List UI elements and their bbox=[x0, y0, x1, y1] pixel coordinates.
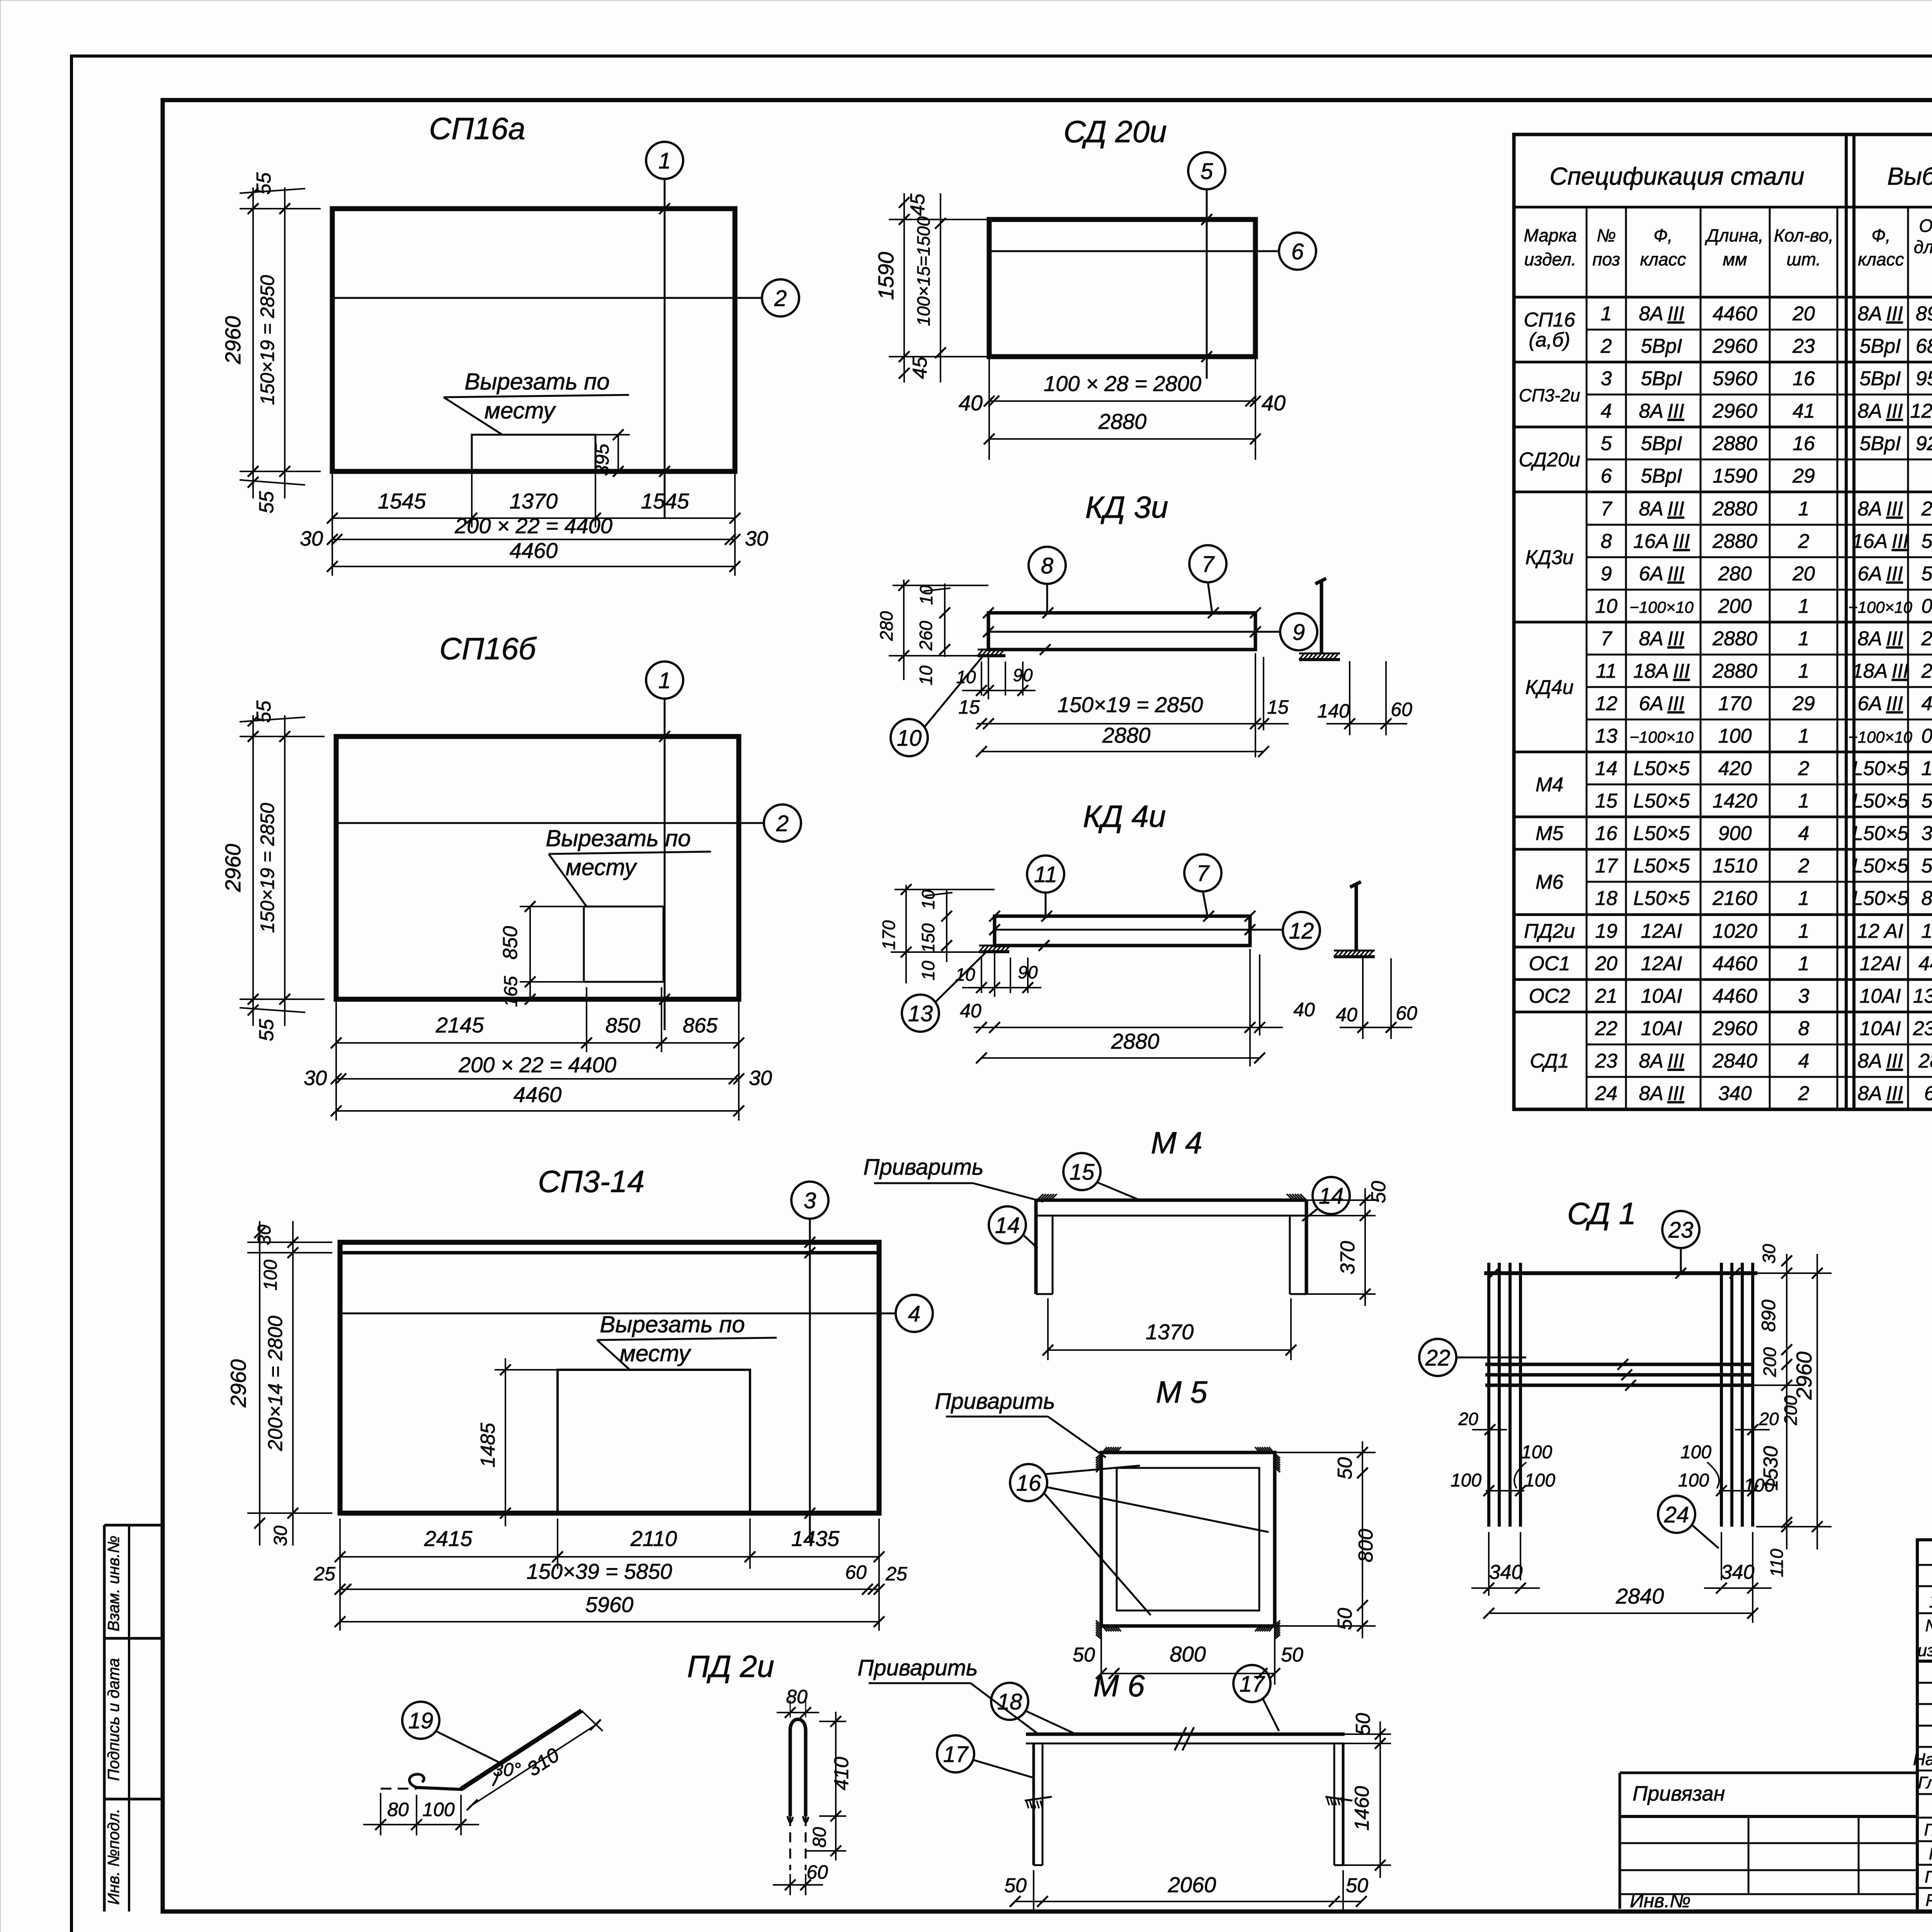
svg-text:7: 7 bbox=[1601, 498, 1613, 520]
svg-text:12AI: 12AI bbox=[1641, 920, 1682, 942]
svg-text:1: 1 bbox=[1798, 887, 1810, 910]
svg-text:ОС2: ОС2 bbox=[1529, 985, 1570, 1007]
svg-text:0.10: 0.10 bbox=[1921, 725, 1932, 747]
svg-text:24: 24 bbox=[1664, 1502, 1689, 1527]
svg-text:(а,б): (а,б) bbox=[1529, 329, 1570, 351]
svg-text:2840: 2840 bbox=[1616, 1584, 1664, 1608]
svg-text:месту: месту bbox=[620, 1340, 692, 1366]
svg-text:СП16б: СП16б bbox=[439, 631, 537, 666]
svg-text:30: 30 bbox=[270, 1526, 291, 1546]
svg-text:СП3-2и: СП3-2и bbox=[1519, 385, 1580, 405]
svg-text:Вырезать по: Вырезать по bbox=[546, 825, 690, 851]
svg-text:140: 140 bbox=[1317, 700, 1350, 722]
svg-text:150×19 = 2850: 150×19 = 2850 bbox=[257, 803, 278, 933]
svg-text:Выборка стали: Выборка стали bbox=[1887, 162, 1932, 190]
svg-text:1485: 1485 bbox=[477, 1422, 499, 1468]
svg-text:10: 10 bbox=[916, 665, 936, 685]
svg-text:17: 17 bbox=[943, 1742, 969, 1767]
svg-text:1545: 1545 bbox=[641, 489, 689, 513]
svg-text:1420: 1420 bbox=[1713, 790, 1757, 812]
svg-text:издел.: издел. bbox=[1524, 249, 1577, 269]
svg-text:50: 50 bbox=[1334, 1608, 1356, 1630]
svg-text:16: 16 bbox=[1016, 1471, 1041, 1496]
svg-text:200: 200 bbox=[1718, 595, 1752, 617]
svg-text:20: 20 bbox=[1595, 952, 1617, 975]
svg-text:10: 10 bbox=[918, 889, 938, 910]
svg-text:4: 4 bbox=[1601, 400, 1612, 422]
svg-text:13: 13 bbox=[1595, 725, 1617, 747]
svg-text:50: 50 bbox=[1352, 1713, 1374, 1735]
svg-text:2880: 2880 bbox=[1712, 432, 1757, 455]
svg-text:340: 340 bbox=[1718, 1082, 1752, 1105]
svg-text:2060: 2060 bbox=[1168, 1872, 1216, 1897]
svg-text:16: 16 bbox=[1793, 432, 1815, 455]
svg-text:М6: М6 bbox=[1536, 871, 1563, 893]
svg-text:25: 25 bbox=[313, 1563, 335, 1585]
svg-text:5ВрI: 5ВрI bbox=[1860, 432, 1901, 455]
svg-text:1: 1 bbox=[1798, 920, 1810, 942]
svg-text:3: 3 bbox=[804, 1188, 816, 1213]
svg-text:20: 20 bbox=[1792, 303, 1815, 325]
svg-text:15: 15 bbox=[1595, 790, 1618, 812]
svg-text:15: 15 bbox=[1267, 696, 1289, 718]
svg-text:Гл.спец.: Гл.спец. bbox=[1924, 1820, 1932, 1839]
svg-text:8А III: 8А III bbox=[1639, 498, 1684, 520]
svg-text:260: 260 bbox=[916, 621, 936, 651]
svg-text:2880: 2880 bbox=[1712, 530, 1757, 553]
svg-text:8А III: 8А III bbox=[1857, 1050, 1903, 1072]
svg-text:89.20: 89.20 bbox=[1916, 303, 1932, 325]
svg-text:мм: мм bbox=[1723, 249, 1747, 269]
svg-text:1: 1 bbox=[1798, 790, 1810, 812]
svg-text:ОС1: ОС1 bbox=[1529, 952, 1570, 975]
svg-text:100: 100 bbox=[1744, 1475, 1775, 1496]
svg-text:23: 23 bbox=[1668, 1218, 1694, 1243]
svg-text:90: 90 bbox=[1013, 665, 1033, 685]
svg-text:L50×5: L50×5 bbox=[1852, 757, 1909, 780]
svg-text:30: 30 bbox=[1759, 1244, 1779, 1264]
svg-text:3: 3 bbox=[1601, 367, 1612, 390]
svg-text:ПД2и: ПД2и bbox=[1524, 920, 1575, 942]
svg-text:№: № bbox=[1925, 1616, 1932, 1635]
svg-text:Ф,: Ф, bbox=[1871, 225, 1890, 245]
svg-text:4460: 4460 bbox=[514, 1082, 562, 1107]
svg-text:6: 6 bbox=[1601, 465, 1612, 487]
svg-text:41: 41 bbox=[1793, 400, 1815, 422]
svg-text:1545: 1545 bbox=[378, 489, 426, 513]
svg-text:1: 1 bbox=[658, 148, 671, 173]
svg-text:170: 170 bbox=[1718, 692, 1752, 715]
svg-text:Приварить: Приварить bbox=[935, 1389, 1055, 1414]
svg-text:10: 10 bbox=[918, 961, 938, 981]
svg-text:6А III: 6А III bbox=[1639, 563, 1684, 585]
svg-text:Гл.конст.: Гл.конст. bbox=[1918, 1773, 1932, 1792]
svg-text:1: 1 bbox=[1929, 1590, 1932, 1612]
svg-text:Общ.: Общ. bbox=[1919, 216, 1932, 236]
svg-text:1370: 1370 bbox=[1146, 1320, 1194, 1344]
svg-text:ПД 2и: ПД 2и bbox=[687, 1649, 774, 1684]
svg-text:16А III: 16А III bbox=[1633, 530, 1690, 553]
svg-text:4: 4 bbox=[908, 1301, 920, 1327]
svg-text:150×19 = 2850: 150×19 = 2850 bbox=[1058, 692, 1203, 717]
svg-text:30: 30 bbox=[300, 527, 323, 550]
svg-text:8А III: 8А III bbox=[1639, 628, 1684, 650]
svg-text:СП16: СП16 bbox=[1524, 309, 1575, 331]
svg-text:2: 2 bbox=[1798, 855, 1810, 877]
svg-text:5: 5 bbox=[1201, 159, 1213, 184]
svg-text:4460: 4460 bbox=[1713, 952, 1757, 975]
svg-text:8А III: 8А III bbox=[1857, 1082, 1903, 1105]
svg-text:11: 11 bbox=[1596, 660, 1617, 682]
svg-text:16: 16 bbox=[1595, 822, 1617, 845]
svg-text:1510: 1510 bbox=[1713, 855, 1757, 877]
svg-text:2: 2 bbox=[1798, 757, 1810, 780]
svg-text:Вырезать по: Вырезать по bbox=[464, 369, 609, 395]
svg-text:месту: месту bbox=[485, 398, 556, 423]
svg-text:14: 14 bbox=[1319, 1184, 1344, 1209]
svg-text:2: 2 bbox=[1600, 335, 1612, 357]
svg-text:2: 2 bbox=[774, 286, 787, 311]
svg-text:5ВрI: 5ВрI bbox=[1641, 367, 1682, 390]
svg-text:4460: 4460 bbox=[1918, 952, 1932, 975]
svg-text:М 4: М 4 bbox=[1151, 1126, 1202, 1160]
svg-text:1: 1 bbox=[658, 668, 671, 693]
svg-text:13: 13 bbox=[908, 1001, 933, 1026]
svg-text:СП16а: СП16а bbox=[429, 111, 525, 146]
svg-text:2415: 2415 bbox=[424, 1526, 473, 1551]
svg-text:8: 8 bbox=[1798, 1017, 1810, 1040]
svg-text:1590: 1590 bbox=[874, 252, 898, 300]
svg-text:20: 20 bbox=[1759, 1409, 1779, 1429]
svg-text:2.88: 2.88 bbox=[1921, 628, 1932, 650]
svg-text:17: 17 bbox=[1595, 855, 1618, 877]
svg-text:8А III: 8А III bbox=[1639, 400, 1684, 422]
svg-text:2: 2 bbox=[776, 811, 789, 836]
svg-text:8.14: 8.14 bbox=[1921, 887, 1932, 910]
svg-text:20: 20 bbox=[1792, 563, 1815, 585]
svg-text:5960: 5960 bbox=[585, 1592, 634, 1617]
svg-text:340: 340 bbox=[1721, 1561, 1755, 1583]
svg-text:L50×5: L50×5 bbox=[1633, 855, 1690, 877]
svg-text:2840: 2840 bbox=[1712, 1050, 1757, 1072]
svg-text:Инв.№: Инв.№ bbox=[1630, 1890, 1690, 1912]
svg-text:4: 4 bbox=[1798, 822, 1810, 845]
svg-text:2110: 2110 bbox=[630, 1526, 677, 1551]
svg-text:2880: 2880 bbox=[1111, 1029, 1160, 1053]
svg-text:4460: 4460 bbox=[1713, 985, 1757, 1007]
svg-text:5.69: 5.69 bbox=[1921, 855, 1932, 877]
svg-text:19: 19 bbox=[1595, 920, 1617, 942]
svg-text:1: 1 bbox=[1798, 660, 1810, 682]
svg-text:420: 420 bbox=[1718, 757, 1752, 780]
svg-text:5960: 5960 bbox=[1713, 367, 1757, 390]
svg-text:150×19 = 2850: 150×19 = 2850 bbox=[257, 275, 278, 405]
svg-text:92.19: 92.19 bbox=[1916, 432, 1932, 455]
svg-text:8А III: 8А III bbox=[1857, 628, 1903, 650]
svg-text:100: 100 bbox=[1524, 1470, 1555, 1491]
svg-text:1: 1 bbox=[1798, 628, 1810, 650]
svg-text:18А III: 18А III bbox=[1633, 660, 1690, 682]
svg-text:13380: 13380 bbox=[1913, 985, 1932, 1007]
svg-text:Приварить: Приварить bbox=[863, 1155, 983, 1180]
svg-text:395: 395 bbox=[591, 444, 613, 476]
svg-text:10AI: 10AI bbox=[1641, 985, 1682, 1007]
svg-text:100: 100 bbox=[422, 1799, 455, 1820]
svg-text:5.60: 5.60 bbox=[1921, 563, 1932, 585]
svg-text:40: 40 bbox=[959, 391, 983, 415]
svg-text:L50×5: L50×5 bbox=[1633, 757, 1690, 780]
svg-text:16: 16 bbox=[1793, 367, 1815, 390]
svg-text:30: 30 bbox=[254, 1225, 275, 1245]
svg-text:22: 22 bbox=[1595, 1017, 1617, 1040]
svg-text:2960: 2960 bbox=[221, 844, 245, 893]
svg-text:1: 1 bbox=[1798, 725, 1810, 747]
svg-text:121.36: 121.36 bbox=[1910, 400, 1932, 422]
svg-text:165: 165 bbox=[501, 976, 521, 1007]
svg-text:класс: класс bbox=[1640, 249, 1686, 269]
svg-text:5ВрI: 5ВрI bbox=[1641, 335, 1682, 357]
svg-text:−100×10: −100×10 bbox=[1848, 598, 1912, 616]
svg-text:СП3-14: СП3-14 bbox=[538, 1164, 645, 1199]
svg-text:6: 6 bbox=[1291, 239, 1304, 264]
svg-text:2960: 2960 bbox=[1712, 1017, 1757, 1040]
svg-text:2880: 2880 bbox=[1712, 660, 1757, 682]
svg-text:8А III: 8А III bbox=[1639, 1050, 1684, 1072]
svg-text:16А III: 16А III bbox=[1852, 530, 1908, 553]
svg-text:14: 14 bbox=[1595, 757, 1617, 780]
svg-text:2.88: 2.88 bbox=[1921, 660, 1932, 682]
svg-text:М5: М5 bbox=[1536, 822, 1564, 845]
svg-text:23680: 23680 bbox=[1913, 1017, 1932, 1040]
svg-text:30: 30 bbox=[749, 1066, 772, 1090]
svg-text:2840: 2840 bbox=[1918, 1050, 1932, 1072]
svg-text:12: 12 bbox=[1289, 918, 1314, 944]
svg-text:СД 20и: СД 20и bbox=[1063, 114, 1167, 149]
svg-text:800: 800 bbox=[1170, 1642, 1206, 1666]
svg-text:8А III: 8А III bbox=[1639, 1082, 1684, 1105]
svg-text:24: 24 bbox=[1595, 1082, 1617, 1105]
svg-text:60: 60 bbox=[845, 1561, 867, 1583]
svg-text:55: 55 bbox=[253, 700, 275, 723]
svg-text:23: 23 bbox=[1792, 335, 1815, 357]
svg-text:2880: 2880 bbox=[1102, 723, 1151, 747]
svg-text:12 AI: 12 AI bbox=[1857, 920, 1903, 942]
svg-text:−100×10: −100×10 bbox=[1629, 728, 1694, 746]
svg-text:−100×10: −100×10 bbox=[1629, 598, 1694, 616]
svg-text:5ВрI: 5ВрI bbox=[1860, 335, 1901, 357]
svg-text:изм.: изм. bbox=[1918, 1641, 1932, 1660]
svg-text:8А III: 8А III bbox=[1857, 303, 1903, 325]
svg-text:15: 15 bbox=[958, 696, 980, 718]
svg-text:L50×5: L50×5 bbox=[1633, 822, 1690, 845]
svg-text:М4: М4 bbox=[1536, 774, 1563, 796]
svg-text:23: 23 bbox=[1595, 1050, 1617, 1072]
svg-text:100: 100 bbox=[260, 1260, 281, 1291]
svg-text:8А III: 8А III bbox=[1857, 400, 1903, 422]
svg-text:55: 55 bbox=[255, 491, 278, 514]
svg-text:5: 5 bbox=[1601, 432, 1612, 455]
svg-text:680: 680 bbox=[1924, 1082, 1932, 1105]
svg-text:1.02: 1.02 bbox=[1921, 920, 1932, 942]
svg-text:СД20и: СД20и bbox=[1519, 449, 1580, 471]
svg-text:2: 2 bbox=[1798, 530, 1810, 553]
svg-text:45: 45 bbox=[906, 193, 929, 216]
svg-text:8: 8 bbox=[1041, 553, 1053, 578]
svg-text:2960: 2960 bbox=[1712, 335, 1757, 357]
svg-text:6А III: 6А III bbox=[1857, 692, 1903, 715]
svg-text:50: 50 bbox=[1367, 1181, 1390, 1203]
svg-text:410: 410 bbox=[830, 1757, 853, 1791]
svg-text:10AI: 10AI bbox=[1641, 1017, 1682, 1040]
svg-text:7: 7 bbox=[1601, 628, 1613, 650]
svg-text:170: 170 bbox=[879, 920, 899, 950]
svg-text:2880: 2880 bbox=[1712, 498, 1757, 520]
svg-text:2960: 2960 bbox=[221, 316, 245, 365]
svg-text:Ф,: Ф, bbox=[1653, 225, 1672, 245]
svg-text:12AI: 12AI bbox=[1860, 952, 1901, 975]
svg-text:11: 11 bbox=[1034, 862, 1057, 887]
svg-text:80: 80 bbox=[786, 1686, 808, 1708]
svg-text:Нач.АПМ-1: Нач.АПМ-1 bbox=[1913, 1750, 1932, 1769]
svg-text:90: 90 bbox=[1018, 962, 1038, 982]
svg-text:1.58: 1.58 bbox=[1921, 757, 1932, 780]
svg-text:25: 25 bbox=[885, 1563, 907, 1585]
svg-text:50: 50 bbox=[1334, 1457, 1356, 1480]
svg-text:10AI: 10AI bbox=[1860, 985, 1901, 1007]
svg-text:4: 4 bbox=[1798, 1050, 1810, 1072]
svg-text:5ВрI: 5ВрI bbox=[1860, 367, 1901, 390]
svg-text:200 × 22 = 4400: 200 × 22 = 4400 bbox=[458, 1053, 616, 1077]
svg-text:7: 7 bbox=[1202, 552, 1215, 577]
svg-text:СД 1: СД 1 bbox=[1567, 1196, 1636, 1231]
svg-text:1: 1 bbox=[1601, 303, 1612, 325]
svg-text:200 × 22 = 4400: 200 × 22 = 4400 bbox=[454, 514, 612, 538]
svg-text:29: 29 bbox=[1792, 465, 1815, 487]
svg-text:200×14 = 2800: 200×14 = 2800 bbox=[264, 1316, 287, 1451]
svg-text:100: 100 bbox=[1451, 1470, 1481, 1491]
svg-text:Кол-во,: Кол-во, bbox=[1774, 225, 1833, 245]
svg-text:1: 1 bbox=[1798, 595, 1810, 617]
svg-text:2880: 2880 bbox=[1712, 628, 1757, 650]
svg-text:Взам. инв.№: Взам. инв.№ bbox=[104, 1536, 122, 1631]
svg-text:1020: 1020 bbox=[1713, 920, 1757, 942]
svg-text:45: 45 bbox=[909, 356, 931, 379]
svg-text:10: 10 bbox=[916, 585, 936, 605]
svg-text:10: 10 bbox=[955, 964, 975, 985]
svg-text:150×39 = 5850: 150×39 = 5850 bbox=[527, 1559, 672, 1583]
svg-text:890: 890 bbox=[1758, 1299, 1779, 1332]
svg-text:40: 40 bbox=[1262, 391, 1286, 415]
svg-text:8: 8 bbox=[1601, 530, 1612, 553]
svg-text:50: 50 bbox=[1346, 1874, 1368, 1897]
svg-text:100×15=1500: 100×15=1500 bbox=[913, 216, 934, 326]
svg-text:10: 10 bbox=[956, 667, 976, 687]
svg-text:Спецификация стали: Спецификация стали bbox=[1549, 162, 1804, 190]
svg-text:Инв. №подл.: Инв. №подл. bbox=[104, 1809, 122, 1905]
svg-text:8А III: 8А III bbox=[1857, 498, 1903, 520]
svg-text:4460: 4460 bbox=[1713, 303, 1757, 325]
svg-text:6А III: 6А III bbox=[1857, 563, 1903, 585]
svg-text:Рук.гр.: Рук.гр. bbox=[1929, 1844, 1932, 1863]
svg-text:2160: 2160 bbox=[1712, 887, 1757, 910]
svg-text:15: 15 bbox=[1070, 1160, 1095, 1185]
svg-text:150: 150 bbox=[918, 923, 938, 953]
svg-text:900: 900 bbox=[1718, 822, 1752, 845]
svg-text:50: 50 bbox=[1004, 1874, 1027, 1897]
svg-text:12AI: 12AI bbox=[1641, 952, 1682, 975]
svg-text:Приварить: Приварить bbox=[857, 1655, 978, 1680]
svg-text:60: 60 bbox=[806, 1861, 828, 1883]
svg-text:L50×5: L50×5 bbox=[1852, 887, 1909, 910]
svg-text:100: 100 bbox=[1521, 1442, 1552, 1463]
svg-text:850: 850 bbox=[499, 926, 522, 960]
svg-text:55: 55 bbox=[255, 1019, 278, 1041]
svg-text:2960: 2960 bbox=[1792, 1352, 1816, 1400]
svg-text:5.35: 5.35 bbox=[1921, 790, 1932, 812]
svg-text:Разраб.: Разраб. bbox=[1925, 1891, 1932, 1910]
svg-text:5ВрI: 5ВрI bbox=[1641, 465, 1682, 487]
svg-text:21: 21 bbox=[1595, 985, 1617, 1007]
svg-text:3: 3 bbox=[1798, 985, 1810, 1007]
svg-text:1435: 1435 bbox=[791, 1526, 840, 1551]
svg-text:8А III: 8А III bbox=[1639, 303, 1684, 325]
svg-text:10: 10 bbox=[1595, 595, 1617, 617]
svg-text:20: 20 bbox=[1458, 1409, 1478, 1429]
svg-text:М 6: М 6 bbox=[1093, 1668, 1145, 1703]
svg-text:0.20: 0.20 bbox=[1921, 595, 1932, 617]
svg-text:2880: 2880 bbox=[1098, 409, 1147, 434]
svg-text:280: 280 bbox=[876, 611, 896, 641]
svg-text:Вырезать по: Вырезать по bbox=[600, 1311, 745, 1337]
svg-text:1590: 1590 bbox=[1713, 465, 1757, 487]
svg-text:L50×5: L50×5 bbox=[1852, 855, 1909, 877]
svg-text:КД3и: КД3и bbox=[1525, 546, 1573, 569]
svg-text:50: 50 bbox=[1073, 1644, 1095, 1666]
svg-text:№: № bbox=[1597, 225, 1616, 245]
svg-text:1460: 1460 bbox=[1351, 1786, 1373, 1831]
svg-text:10: 10 bbox=[897, 726, 922, 751]
svg-text:14: 14 bbox=[995, 1213, 1020, 1238]
svg-text:19: 19 bbox=[408, 1708, 434, 1733]
svg-text:4460: 4460 bbox=[510, 538, 558, 563]
svg-text:40: 40 bbox=[1336, 1004, 1357, 1026]
svg-text:месту: месту bbox=[566, 854, 638, 880]
svg-text:865: 865 bbox=[683, 1014, 718, 1037]
svg-text:18: 18 bbox=[997, 1689, 1022, 1714]
svg-text:100 × 28 = 2800: 100 × 28 = 2800 bbox=[1044, 371, 1201, 396]
svg-text:340: 340 bbox=[1489, 1561, 1523, 1583]
svg-text:18: 18 bbox=[1595, 887, 1617, 910]
svg-text:2960: 2960 bbox=[226, 1359, 250, 1408]
svg-text:Привязан: Привязан bbox=[1633, 1782, 1725, 1805]
svg-text:L50×5: L50×5 bbox=[1852, 790, 1909, 812]
svg-text:Подпись и дата: Подпись и дата bbox=[104, 1658, 122, 1781]
svg-text:КД 3и: КД 3и bbox=[1085, 490, 1168, 524]
svg-text:1: 1 bbox=[1798, 498, 1810, 520]
svg-text:−100×10: −100×10 bbox=[1848, 728, 1912, 746]
svg-text:280: 280 bbox=[1718, 563, 1752, 585]
svg-text:2960: 2960 bbox=[1712, 400, 1757, 422]
svg-text:200: 200 bbox=[1760, 1347, 1780, 1377]
svg-text:12: 12 bbox=[1595, 692, 1617, 715]
svg-text:длина,: длина, bbox=[1914, 237, 1932, 257]
svg-text:3.39: 3.39 bbox=[1921, 822, 1932, 845]
svg-text:класс: класс bbox=[1858, 249, 1904, 269]
svg-text:9: 9 bbox=[1601, 563, 1612, 585]
svg-text:шт.: шт. bbox=[1787, 249, 1821, 269]
svg-text:22: 22 bbox=[1425, 1345, 1451, 1371]
svg-text:800: 800 bbox=[1355, 1529, 1377, 1563]
